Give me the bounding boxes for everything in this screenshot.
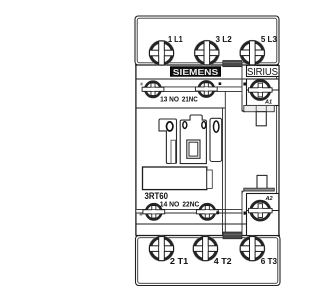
svg-text:1 L1: 1 L1 xyxy=(168,34,183,44)
svg-text:2 T1: 2 T1 xyxy=(170,256,189,266)
svg-text:3 L2: 3 L2 xyxy=(216,34,233,44)
svg-text:A2: A2 xyxy=(265,196,274,202)
svg-text:22NC: 22NC xyxy=(182,200,199,209)
svg-text:A1: A1 xyxy=(264,99,272,105)
svg-text:SIRIUS: SIRIUS xyxy=(247,67,278,78)
svg-text:5 L3: 5 L3 xyxy=(261,34,277,44)
svg-text:6 T3: 6 T3 xyxy=(261,256,278,266)
svg-text:21NC: 21NC xyxy=(182,95,198,104)
svg-text:14 NO: 14 NO xyxy=(160,200,180,209)
svg-text:4 T2: 4 T2 xyxy=(214,256,232,266)
svg-text:SIEMENS: SIEMENS xyxy=(173,67,219,77)
svg-text:13 NO: 13 NO xyxy=(160,95,179,104)
svg-text:3RT60: 3RT60 xyxy=(145,190,169,201)
